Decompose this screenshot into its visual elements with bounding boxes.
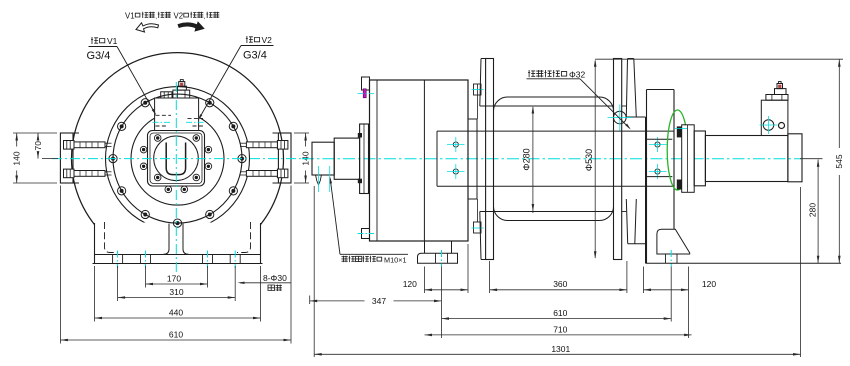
clutch air nipple pin [316, 175, 322, 185]
right plate bolt upper [277, 141, 288, 150]
brake valve block [761, 100, 788, 135]
left plate bolt lower [64, 169, 75, 178]
input shaft end step C [312, 142, 334, 175]
motor flange disc [360, 124, 369, 194]
dim 310 [118, 297, 236, 299]
flange boss circle [106, 87, 250, 231]
svg-text:Φ530: Φ530 [584, 149, 594, 171]
dim phi280 [532, 107, 534, 213]
valve block on housing top [155, 98, 199, 131]
pedestal left wall [94, 223, 96, 255]
dim 440 [95, 317, 261, 319]
flange mounting bolt bottom-left [474, 222, 482, 233]
svg-text:440: 440 [169, 308, 183, 318]
input shaft step B [334, 138, 359, 179]
svg-text:,: , [155, 13, 157, 20]
flange top extension line [595, 58, 843, 60]
svg-text:V1: V1 [125, 11, 135, 20]
base hole centerlines (cyan) [117, 251, 119, 269]
svg-text:,: , [204, 13, 206, 20]
bearing stand foot [657, 229, 690, 254]
ground base line [646, 262, 842, 264]
svg-text:V2: V2 [262, 35, 273, 45]
svg-text:Φ32: Φ32 [569, 70, 586, 80]
right side mounting plate [278, 133, 291, 183]
square plate corner bolts [154, 135, 161, 142]
svg-text:360: 360 [553, 279, 567, 289]
drum barrel lines phi280 [480, 105, 614, 107]
pedestal inner wall dashed right [237, 222, 251, 253]
bottom extension lines side view [309, 296, 311, 305]
base mounting hole edges 8-Phi30 [112, 255, 114, 264]
dim 120 right [644, 289, 689, 291]
pedestal inner wall dashed left [105, 222, 119, 253]
top fitting assembly [161, 92, 172, 98]
drum left flange disc [486, 59, 494, 260]
pedestal right wall [260, 223, 262, 255]
axle right pin circles [655, 142, 660, 147]
dim 347 [310, 300, 365, 302]
svg-text:G3/4: G3/4 [87, 50, 111, 62]
rope anchor hole phi32 [614, 111, 627, 124]
fitting cap with red seal [179, 82, 185, 87]
bolt pitch circle [113, 94, 242, 223]
side bolts outside square [140, 146, 147, 153]
mask pedestal interior over circle bottoms [95, 223, 261, 268]
center T-rib [164, 224, 189, 255]
bearing stand plate [647, 89, 675, 91]
svg-text:610: 610 [169, 330, 183, 340]
right plate bolt lower [277, 169, 288, 178]
left flange cone rim [481, 58, 486, 60]
svg-text:120: 120 [403, 279, 417, 289]
housing bottom-left step [362, 229, 370, 239]
side view horizontal centerline [302, 158, 801, 160]
coupling detail between stand and brake [682, 125, 695, 193]
gearbox housing box [370, 80, 469, 241]
dim 1301 [314, 353, 800, 355]
svg-text:610: 610 [553, 308, 567, 318]
right flange hub line [626, 116, 645, 118]
V2 rotation arrow (filled, cw) [178, 22, 204, 31]
winch housing outer circle (front view) [72, 53, 284, 265]
dim 70 left [42, 158, 58, 160]
brake cylinder body [705, 136, 788, 182]
valve block port dashes V2 side [188, 117, 204, 119]
svg-text:G3/4: G3/4 [243, 50, 267, 62]
label oil port V1 [91, 37, 98, 44]
label pneumatic clutch port M10x1 [340, 253, 408, 255]
leader V2 to valve block [199, 46, 242, 120]
svg-text:280: 280 [808, 203, 818, 217]
brake valve small port circle [779, 123, 785, 129]
label wire rope port phi32 [528, 70, 535, 77]
shaft keyway U shape [166, 143, 185, 175]
brake cylinder end cap [788, 134, 802, 182]
dim phi530 [594, 61, 596, 259]
svg-text:545: 545 [834, 154, 844, 168]
gearbox foot bracket [424, 241, 426, 253]
base plate [95, 254, 261, 256]
dim 545 [838, 59, 840, 148]
dim 170 [146, 283, 208, 285]
housing top-left step [362, 77, 370, 90]
axle left pin circles [453, 142, 458, 147]
svg-text:120: 120 [702, 279, 716, 289]
svg-text:347: 347 [372, 296, 386, 306]
left side mounting plate [60, 133, 73, 183]
left plate bolt upper [64, 141, 75, 150]
svg-text:V2: V2 [174, 11, 184, 20]
drum hub spacer left [476, 119, 478, 199]
leader V1 to valve block [117, 47, 156, 115]
svg-text:170: 170 [167, 274, 181, 284]
12 flange bolt holes [238, 155, 246, 163]
svg-text:140: 140 [12, 151, 22, 165]
svg-text:310: 310 [169, 287, 183, 297]
V1 rotation arrow (open, ccw) [136, 23, 159, 32]
dim 360 [490, 289, 627, 291]
green highlight ellipse [667, 110, 688, 190]
drum rope zone rounded rect [494, 97, 614, 221]
front view horizontal centerline [52, 158, 308, 160]
svg-text:Φ280: Φ280 [522, 148, 532, 170]
flange mounting bolt top-left [474, 84, 482, 95]
dim 120 left [425, 289, 469, 291]
front view vertical centerline [175, 82, 177, 272]
port centerline cyan right [186, 121, 206, 123]
dim 140 right [294, 132, 309, 134]
magenta breather fitting [363, 89, 366, 98]
svg-text:710: 710 [553, 324, 567, 334]
dim 280 height [817, 160, 819, 264]
brake valve top fittings [766, 95, 788, 101]
extension lines bottom front [145, 266, 147, 288]
brake cylinder step [694, 131, 705, 186]
right flange cone rim [628, 58, 634, 60]
axle end thrust plate [647, 138, 673, 140]
dim 140 left [13, 132, 57, 134]
svg-text:M10×1: M10×1 [384, 255, 407, 264]
svg-text:8-Φ30: 8-Φ30 [263, 273, 287, 283]
dim 710 [425, 334, 692, 336]
drum axle rectangle [437, 130, 674, 132]
port centerline cyan left [153, 121, 173, 123]
svg-text:V1: V1 [107, 36, 118, 46]
drum right flange disc [614, 59, 622, 260]
svg-text:1301: 1301 [551, 344, 570, 354]
brake valve big port circle [763, 120, 774, 131]
dim 610 front [60, 339, 291, 341]
motor mounting square plate [148, 131, 205, 187]
plate inner circle [154, 136, 199, 181]
inner circle around motor plate [131, 112, 224, 205]
dim 610 side [442, 318, 672, 320]
svg-text:70: 70 [33, 141, 43, 151]
valve block port dashes V1 side [156, 114, 172, 116]
label oil port V2 [246, 36, 253, 43]
